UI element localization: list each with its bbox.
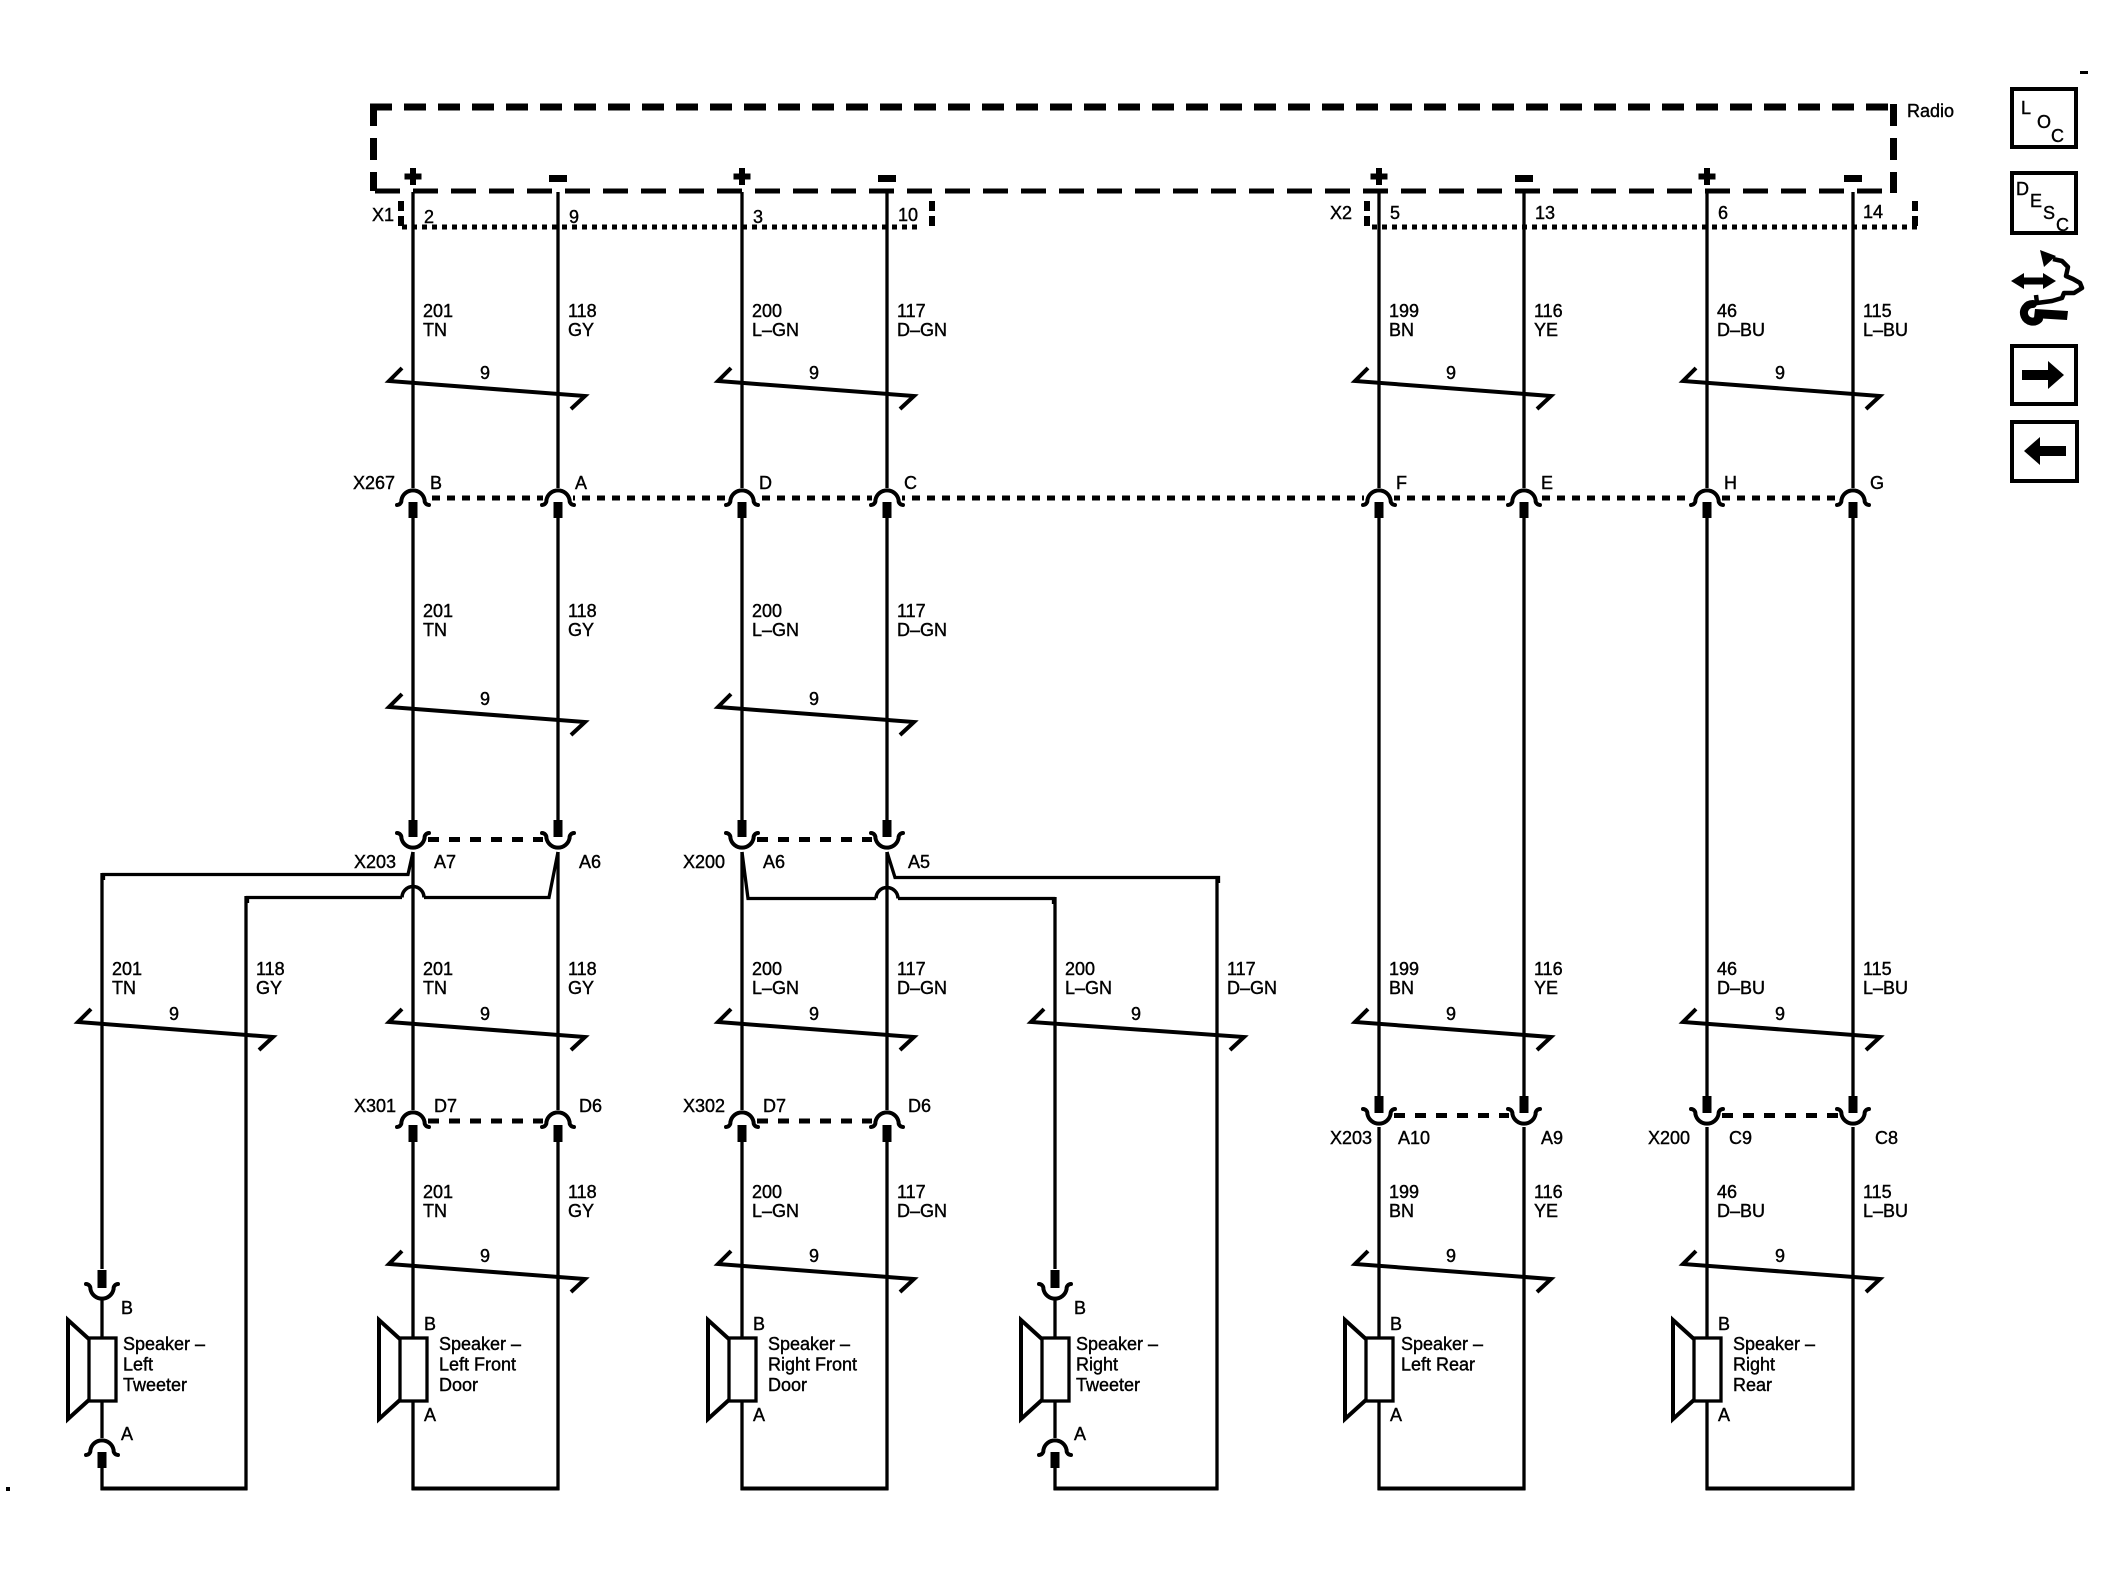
svg-text:C: C	[904, 473, 917, 493]
twisted pair symbol 9 row3 left front door	[389, 1009, 585, 1050]
svg-text:D–BU: D–BU	[1717, 978, 1765, 998]
svg-text:Speaker –: Speaker –	[768, 1334, 850, 1354]
wire hop over 201 TN wire	[402, 887, 424, 898]
svg-text:118: 118	[568, 601, 597, 621]
svg-text:GY: GY	[568, 620, 594, 640]
twisted pair symbol 9 row3 right front door	[718, 1009, 914, 1050]
svg-text:GY: GY	[568, 1201, 594, 1221]
svg-text:A9: A9	[1541, 1128, 1563, 1148]
svg-text:D–GN: D–GN	[1227, 978, 1277, 998]
svg-text:L–GN: L–GN	[752, 1201, 799, 1221]
svg-text:117: 117	[897, 301, 926, 321]
svg-text:115: 115	[1863, 301, 1892, 321]
svg-text:GY: GY	[256, 978, 282, 998]
svg-text:199: 199	[1389, 959, 1419, 979]
svg-text:YE: YE	[1534, 978, 1558, 998]
svg-text:201: 201	[112, 959, 142, 979]
svg-text:L–BU: L–BU	[1863, 978, 1908, 998]
svg-text:YE: YE	[1534, 1201, 1558, 1221]
wire 46 D-BU radio X2-6 to X267-H	[1705, 192, 1708, 488]
svg-text:116: 116	[1534, 959, 1563, 979]
wire 200 L-GN down to right tweeter	[898, 899, 1054, 905]
svg-text:A6: A6	[763, 852, 785, 872]
svg-text:B: B	[430, 473, 442, 493]
svg-text:117: 117	[1227, 959, 1256, 979]
svg-text:G: G	[1870, 473, 1884, 493]
svg-text:D7: D7	[434, 1096, 457, 1116]
connector pin A10	[1375, 1096, 1384, 1113]
plus sign pin 5	[1376, 168, 1382, 185]
svg-text:A10: A10	[1398, 1128, 1430, 1148]
svg-text:L: L	[2021, 98, 2031, 118]
stray dot bottom left	[6, 1487, 10, 1491]
wire 118 GY radio X1-9 to X267-A	[556, 192, 559, 488]
svg-text:D–GN: D–GN	[897, 978, 947, 998]
svg-text:9: 9	[480, 689, 490, 709]
svg-text:YE: YE	[1534, 320, 1558, 340]
svg-text:9: 9	[1446, 363, 1456, 383]
svg-text:201: 201	[423, 601, 453, 621]
twisted pair symbol 9 row1 left-front	[389, 368, 585, 409]
connector pin X302-D7	[726, 1112, 758, 1127]
svg-text:200: 200	[1065, 959, 1095, 979]
svg-text:9: 9	[480, 1004, 490, 1024]
svg-text:D–GN: D–GN	[897, 620, 947, 640]
forward arrow icon box	[2012, 346, 2076, 404]
svg-text:X203: X203	[1330, 1128, 1372, 1148]
svg-text:Door: Door	[768, 1375, 807, 1395]
right rear loop bottom wire	[1706, 1487, 1855, 1491]
connector X267 pin H	[1691, 490, 1723, 505]
connector X200 dashed line	[757, 837, 872, 842]
connector X267 pin G	[1837, 490, 1869, 505]
connector X267 pin E	[1508, 490, 1540, 505]
right tweeter loop bottom wire	[1054, 1487, 1219, 1491]
twisted pair symbol 9 row4 right rear	[1683, 1251, 1880, 1292]
connector X203 dashed line	[428, 837, 543, 842]
svg-text:6: 6	[1718, 203, 1728, 223]
svg-text:14: 14	[1863, 202, 1883, 222]
twisted pair symbol 9 row3 right rear	[1683, 1009, 1880, 1050]
tweeter right wire lower segments	[1053, 1300, 1056, 1339]
speaker right tweeter	[1021, 1320, 1043, 1419]
svg-text:GY: GY	[568, 978, 594, 998]
svg-text:Speaker –: Speaker –	[1733, 1334, 1815, 1354]
svg-text:5: 5	[1390, 203, 1400, 223]
svg-text:9: 9	[480, 1246, 490, 1266]
X267 inline connector dotted line	[402, 496, 1853, 501]
svg-text:9: 9	[1775, 1004, 1785, 1024]
connector strip X1/X2 top long-dash line	[375, 189, 1894, 194]
svg-text:D–BU: D–BU	[1717, 1201, 1765, 1221]
svg-text:Tweeter: Tweeter	[1076, 1375, 1140, 1395]
svg-text:A: A	[424, 1405, 436, 1425]
connector X267 pin A	[542, 490, 574, 505]
svg-text:L–BU: L–BU	[1863, 1201, 1908, 1221]
svg-text:117: 117	[897, 601, 926, 621]
svg-text:199: 199	[1389, 1182, 1419, 1202]
svg-text:10: 10	[898, 205, 918, 225]
svg-text:C: C	[2051, 126, 2064, 146]
svg-text:D: D	[2016, 179, 2029, 199]
connector pin X301-D7	[397, 1112, 429, 1127]
wire 200 L-GN radio X1-3 to X267-D	[740, 192, 743, 488]
svg-text:TN: TN	[423, 620, 447, 640]
wire branch 118 GY return from left tweeter	[424, 852, 558, 898]
connector pin A6	[554, 820, 563, 837]
pointer-wrench icon wrench	[2024, 304, 2039, 322]
svg-text:B: B	[424, 1314, 436, 1334]
pointer-wrench icon curved outline	[2036, 259, 2082, 303]
svg-text:Speaker –: Speaker –	[1076, 1334, 1158, 1354]
svg-text:E: E	[2030, 191, 2042, 211]
svg-text:Speaker –: Speaker –	[123, 1334, 205, 1354]
connector X267 pin B	[397, 490, 429, 505]
svg-text:116: 116	[1534, 1182, 1563, 1202]
twisted pair symbol 9 row2 left-front	[389, 694, 585, 735]
svg-text:Right: Right	[1733, 1355, 1775, 1375]
twisted pair symbol 9 row4 left front door	[389, 1251, 585, 1292]
wire 115 L-BU radio X2-14 to X267-G	[1851, 192, 1854, 488]
wire 117 D-GN radio X1-10 to X267-C	[885, 192, 888, 488]
plus sign pin 2	[410, 168, 416, 185]
speaker left rear	[1345, 1320, 1367, 1419]
connector strip X2 bottom dotted line	[1372, 225, 1918, 230]
svg-text:118: 118	[568, 959, 597, 979]
minus sign pin 14	[1844, 175, 1862, 182]
right front door loop bottom wire	[741, 1487, 889, 1491]
svg-text:Door: Door	[439, 1375, 478, 1395]
connector pin A6	[738, 820, 747, 837]
svg-text:200: 200	[752, 601, 782, 621]
X1 strip right dotted mark	[929, 201, 935, 211]
connector pin X301-D6	[542, 1112, 574, 1127]
connector pin A5	[883, 820, 892, 837]
svg-text:X302: X302	[683, 1096, 725, 1116]
svg-text:D–GN: D–GN	[897, 1201, 947, 1221]
plus sign pin 3	[739, 168, 745, 185]
svg-text:B: B	[753, 1314, 765, 1334]
svg-text:200: 200	[752, 1182, 782, 1202]
svg-text:116: 116	[1534, 301, 1563, 321]
svg-text:46: 46	[1717, 1182, 1737, 1202]
svg-text:Tweeter: Tweeter	[123, 1375, 187, 1395]
svg-text:Left Rear: Left Rear	[1401, 1355, 1475, 1375]
svg-text:X301: X301	[354, 1096, 396, 1116]
svg-text:9: 9	[1446, 1004, 1456, 1024]
speaker right rear	[1673, 1320, 1695, 1419]
svg-text:L–GN: L–GN	[752, 978, 799, 998]
svg-text:TN: TN	[112, 978, 136, 998]
svg-text:118: 118	[568, 1182, 597, 1202]
svg-text:GY: GY	[568, 320, 594, 340]
plus sign pin 6	[1704, 168, 1710, 185]
svg-text:E: E	[1541, 473, 1553, 493]
svg-text:Speaker –: Speaker –	[439, 1334, 521, 1354]
svg-text:X2: X2	[1330, 203, 1352, 223]
X1 strip left dotted mark	[398, 201, 404, 211]
svg-text:C8: C8	[1875, 1128, 1898, 1148]
svg-text:B: B	[121, 1298, 133, 1318]
svg-text:B: B	[1718, 1314, 1730, 1334]
speaker left front door	[379, 1320, 401, 1419]
svg-text:9: 9	[809, 1004, 819, 1024]
svg-text:D7: D7	[763, 1096, 786, 1116]
svg-text:9: 9	[1775, 363, 1785, 383]
svg-text:9: 9	[1775, 1246, 1785, 1266]
svg-text:L–GN: L–GN	[1065, 978, 1112, 998]
twisted pair symbol 9 row1 left-rear	[1355, 368, 1551, 409]
svg-text:D: D	[759, 473, 772, 493]
svg-text:115: 115	[1863, 1182, 1892, 1202]
svg-text:9: 9	[480, 363, 490, 383]
svg-text:118: 118	[256, 959, 285, 979]
connector X200 rear dashed line	[1722, 1113, 1838, 1118]
svg-text:115: 115	[1863, 959, 1892, 979]
connector pin X302-D6	[871, 1112, 903, 1127]
minus sign pin 13	[1515, 175, 1533, 182]
svg-text:A: A	[1074, 1424, 1086, 1444]
connector pin A9	[1520, 1096, 1529, 1113]
svg-text:Radio: Radio	[1907, 101, 1954, 121]
connector X301 dashed line	[428, 1119, 543, 1124]
connector strip X1 bottom dotted line	[402, 225, 922, 230]
svg-text:TN: TN	[423, 320, 447, 340]
svg-text:L–GN: L–GN	[752, 320, 799, 340]
svg-text:A7: A7	[434, 852, 456, 872]
connector X203 rear dashed line	[1394, 1113, 1509, 1118]
svg-text:9: 9	[1446, 1246, 1456, 1266]
svg-text:A5: A5	[908, 852, 930, 872]
svg-text:X203: X203	[354, 852, 396, 872]
svg-text:D6: D6	[579, 1096, 602, 1116]
X2 strip right dotted mark	[1912, 201, 1918, 211]
svg-text:Left Front: Left Front	[439, 1355, 516, 1375]
svg-text:B: B	[1390, 1314, 1402, 1334]
svg-text:46: 46	[1717, 301, 1737, 321]
svg-text:117: 117	[897, 1182, 926, 1202]
connector X267 pin D	[726, 490, 758, 505]
svg-text:H: H	[1724, 473, 1737, 493]
wire 116 YE radio X2-13 to X267-E	[1522, 192, 1525, 488]
svg-text:BN: BN	[1389, 1201, 1414, 1221]
svg-text:A: A	[1718, 1405, 1730, 1425]
svg-text:201: 201	[423, 959, 453, 979]
svg-text:X200: X200	[1648, 1128, 1690, 1148]
svg-text:C9: C9	[1729, 1128, 1752, 1148]
svg-text:117: 117	[897, 959, 926, 979]
svg-text:L–BU: L–BU	[1863, 320, 1908, 340]
connector pin C8	[1849, 1096, 1858, 1113]
wire 118 GY to left tweeter return	[248, 898, 403, 904]
left front door loop bottom wire	[412, 1487, 560, 1491]
left tweeter pin A inline connector	[86, 1440, 118, 1455]
svg-text:A6: A6	[579, 852, 601, 872]
connector X267 pin C	[871, 490, 903, 505]
pointer-wrench icon double arrow	[2011, 273, 2056, 289]
DESC icon box	[2012, 173, 2076, 233]
svg-text:Left: Left	[123, 1355, 153, 1375]
svg-text:TN: TN	[423, 978, 447, 998]
svg-text:118: 118	[568, 301, 597, 321]
right tweeter pin B inline connector	[1051, 1270, 1060, 1288]
svg-text:13: 13	[1535, 203, 1555, 223]
svg-text:BN: BN	[1389, 320, 1414, 340]
svg-text:D–GN: D–GN	[897, 320, 947, 340]
svg-text:46: 46	[1717, 959, 1737, 979]
minus sign pin 10	[878, 175, 896, 182]
twisted pair symbol 9 row1 right-front	[718, 368, 914, 409]
wire branch 117 D-GN return from right tweeter	[887, 852, 1219, 883]
speaker left tweeter	[68, 1320, 90, 1419]
svg-text:9: 9	[169, 1004, 179, 1024]
connector X267 pin F	[1363, 490, 1395, 505]
twisted pair symbol 9 row3 right tweeter	[1031, 1009, 1244, 1050]
svg-text:O: O	[2037, 112, 2051, 132]
svg-text:S: S	[2043, 203, 2055, 223]
X2 strip left dotted mark	[1364, 201, 1370, 211]
svg-text:201: 201	[423, 1182, 453, 1202]
twisted pair symbol 9 row3 left tweeter	[78, 1009, 273, 1050]
twisted pair symbol 9 row1 right-rear	[1683, 368, 1880, 409]
svg-text:A: A	[753, 1405, 765, 1425]
speaker right front door	[708, 1320, 730, 1419]
svg-text:B: B	[1074, 1298, 1086, 1318]
svg-text:C: C	[2056, 215, 2069, 235]
LOC icon box	[2012, 89, 2076, 147]
svg-text:Right Front: Right Front	[768, 1355, 857, 1375]
svg-text:D–BU: D–BU	[1717, 320, 1765, 340]
svg-text:A: A	[575, 473, 587, 493]
svg-text:9: 9	[1131, 1004, 1141, 1024]
svg-text:200: 200	[752, 959, 782, 979]
svg-text:201: 201	[423, 301, 453, 321]
twisted pair symbol 9 row3 left rear	[1355, 1009, 1551, 1050]
svg-text:X200: X200	[683, 852, 725, 872]
svg-text:3: 3	[753, 207, 763, 227]
svg-text:9: 9	[809, 689, 819, 709]
left rear loop bottom wire	[1378, 1487, 1526, 1491]
svg-text:X267: X267	[353, 473, 395, 493]
svg-text:Rear: Rear	[1733, 1375, 1772, 1395]
svg-text:Right: Right	[1076, 1355, 1118, 1375]
connector pin C9	[1703, 1096, 1712, 1113]
svg-text:BN: BN	[1389, 978, 1414, 998]
svg-text:D6: D6	[908, 1096, 931, 1116]
twisted pair symbol 9 row4 left rear	[1355, 1251, 1551, 1292]
svg-text:TN: TN	[423, 1201, 447, 1221]
twisted pair symbol 9 row4 right front door	[718, 1251, 914, 1292]
twisted pair symbol 9 row2 right-front	[718, 694, 914, 735]
connector pin A7	[409, 820, 418, 837]
connector X302 dashed line	[757, 1119, 872, 1124]
right tweeter pin A inline connector	[1039, 1440, 1071, 1455]
svg-text:L–GN: L–GN	[752, 620, 799, 640]
back arrow icon box	[2012, 422, 2077, 481]
tweeter left wire lower segments	[100, 1300, 103, 1339]
svg-text:9: 9	[809, 363, 819, 383]
left tweeter loop bottom wire	[101, 1487, 248, 1491]
svg-text:F: F	[1396, 473, 1407, 493]
svg-text:X1: X1	[372, 205, 394, 225]
svg-text:Speaker –: Speaker –	[1401, 1334, 1483, 1354]
svg-text:A: A	[121, 1424, 133, 1444]
wire branch 201 TN to left tweeter	[104, 852, 414, 880]
wire branch 200 L-GN to right tweeter	[742, 852, 876, 899]
wire 199 BN radio X2-5 to X267-F	[1377, 192, 1380, 488]
minus sign pin 9	[549, 175, 567, 182]
left tweeter pin B inline connector	[98, 1270, 107, 1288]
svg-text:9: 9	[809, 1246, 819, 1266]
svg-text:2: 2	[424, 207, 434, 227]
svg-text:200: 200	[752, 301, 782, 321]
wire hop over 117 D-GN wire	[876, 888, 898, 899]
svg-text:199: 199	[1389, 301, 1419, 321]
svg-text:A: A	[1390, 1405, 1402, 1425]
stray mark top right	[2080, 71, 2088, 74]
radio box dashed outline	[370, 104, 1894, 111]
wire 201 TN radio X1-2 to X267-B	[411, 192, 414, 488]
svg-text:9: 9	[569, 207, 579, 227]
